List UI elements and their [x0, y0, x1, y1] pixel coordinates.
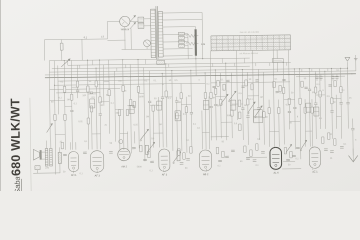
tube V1 AH1 — [68, 151, 78, 171]
resistor RB4 — [216, 147, 218, 154]
wire v127 — [127, 131, 129, 149]
resistor RM3 — [245, 80, 247, 86]
wire screen link — [283, 160, 295, 162]
resistor R18 — [214, 88, 216, 94]
wire bus y72 — [45, 71, 356, 75]
capacitor CM2 — [226, 79, 229, 81]
svg-text:AZ 1: AZ 1 — [312, 170, 318, 173]
capacitor C8 — [241, 107, 244, 109]
resistor R32 — [126, 109, 128, 115]
resistor chain RD3 — [238, 124, 241, 131]
wire fuse link — [107, 39, 125, 41]
wire bus tick — [327, 68, 329, 71]
wire tube6 pin3 — [278, 100, 281, 147]
capacitor CB19 — [296, 146, 300, 148]
switch S8 — [301, 140, 307, 149]
resistor R5 — [76, 81, 78, 87]
speaker magnet — [40, 150, 42, 160]
resistor RB10 — [290, 151, 292, 158]
wire tube4 pin2 — [161, 73, 164, 147]
wire v258 — [257, 69, 260, 139]
wire v64 — [64, 61, 65, 150]
resistor R17 — [185, 107, 187, 113]
resistor R15 — [176, 113, 178, 119]
wire tube1 pin a — [69, 142, 71, 149]
wire link — [269, 131, 279, 133]
capacitor CB5 — [246, 157, 250, 159]
resistor RB7 — [250, 150, 252, 157]
resistor R35 — [204, 92, 206, 98]
capacitor C13 — [340, 102, 343, 104]
wire secondary tap1 — [163, 12, 202, 15]
resistor RM2 — [223, 84, 225, 90]
capacitor C3 — [99, 113, 102, 115]
capacitor CM1 — [212, 85, 215, 87]
wire pickup bottom — [276, 62, 278, 72]
wire bus heater bottom — [33, 172, 60, 174]
tube V7 AZ1 — [309, 147, 320, 169]
capacitor CB4 — [225, 155, 229, 157]
wire v210 — [210, 51, 211, 141]
resistor R14 — [165, 91, 167, 97]
resistor R39 — [304, 107, 306, 113]
resistor R3 — [64, 114, 66, 120]
svg-text:mit Allstrom-Netzteil: mit Allstrom-Netzteil — [239, 52, 258, 55]
resistor R9 — [99, 97, 101, 103]
svg-text:5000: 5000 — [139, 96, 145, 98]
switch S10 — [286, 144, 292, 152]
resistor R30 — [90, 106, 92, 112]
resistor RB12 — [327, 133, 329, 140]
capacitor CB13 — [63, 153, 67, 155]
wire bus y82 mid — [211, 82, 290, 83]
wire link — [290, 120, 301, 122]
capacitor C14 — [351, 128, 354, 130]
wire bus tick — [116, 68, 118, 71]
capacitor C2 — [90, 91, 93, 93]
wire v315 — [314, 71, 317, 139]
coil L1 — [90, 99, 95, 108]
resistor R8 — [95, 81, 97, 87]
resistor R19 — [220, 99, 222, 105]
svg-text:1M: 1M — [212, 97, 215, 99]
wire link — [72, 86, 78, 88]
wire link — [150, 104, 159, 106]
potentiometer P1 — [177, 151, 180, 161]
svg-text:AF 3: AF 3 — [162, 173, 168, 176]
wire link — [305, 130, 312, 132]
svg-text:2M: 2M — [178, 102, 181, 104]
wire bus tick — [92, 60, 94, 65]
svg-text:380/0,06: 380/0,06 — [121, 29, 130, 31]
wire v172 — [172, 71, 173, 151]
switch contacts — [140, 140, 141, 141]
switch S5 — [229, 91, 236, 100]
margin rule — [30, 98, 31, 194]
wire link — [284, 98, 295, 100]
wire v119 — [118, 114, 120, 150]
wire v299 — [300, 69, 301, 159]
tube V3 indicator — [118, 148, 131, 161]
wire bus tick — [168, 64, 170, 67]
field coil box — [35, 166, 40, 170]
capacitor CB16 — [132, 146, 136, 148]
antenna arrow — [345, 57, 350, 61]
resistor RB16 — [61, 142, 63, 149]
wire bus tick — [234, 63, 236, 66]
dial lamp 2 — [144, 40, 151, 47]
resistor R24 — [288, 98, 290, 104]
wire v336 — [335, 95, 337, 129]
wire v253 — [252, 50, 255, 122]
coil L4 — [175, 111, 181, 121]
capacitor C18 — [246, 115, 249, 117]
wire v242 — [241, 70, 244, 140]
resistor RB1 — [178, 149, 180, 156]
resistor R12 — [129, 99, 131, 105]
wire v134 — [134, 131, 136, 143]
resistor R6 — [87, 86, 89, 92]
ground sym top right — [355, 55, 357, 58]
resistor RM1 — [217, 80, 219, 86]
wire selector to primary A — [144, 18, 151, 20]
svg-text:2M: 2M — [67, 99, 70, 101]
wire bus y78 right — [296, 75, 345, 78]
wire bus tick — [125, 65, 127, 68]
coil L8 — [306, 103, 311, 112]
capacitor C17 — [214, 103, 217, 105]
capacitor C1 — [70, 109, 73, 111]
wire v294 — [294, 69, 295, 149]
wire link — [120, 132, 128, 134]
wire rail B — [54, 61, 55, 175]
wire bar bottom — [195, 56, 197, 59]
wire fuse vertical — [61, 40, 63, 44]
wire chain bottom — [211, 136, 229, 138]
svg-text:AH 1: AH 1 — [71, 174, 77, 177]
wire bus y69 — [49, 68, 347, 72]
capacitor CB14 — [83, 151, 87, 153]
wire v109 — [108, 60, 111, 134]
wire link — [92, 133, 101, 135]
wire selector drop — [130, 28, 132, 49]
voltage selector box lower — [138, 23, 144, 28]
switch S2 — [148, 142, 155, 151]
wire v103 — [102, 65, 105, 106]
wire v215 — [214, 70, 217, 140]
resistor R11 — [122, 86, 124, 92]
wire link — [115, 109, 123, 111]
resistor RM6 — [279, 85, 281, 91]
resistor R23 — [282, 87, 284, 93]
rectifier bar — [195, 29, 197, 56]
resistor RM5 — [273, 82, 275, 88]
coil L9 — [314, 107, 319, 116]
voltage table — [211, 35, 291, 51]
capacitor C10 — [293, 106, 296, 108]
wire v247 — [246, 72, 249, 145]
fuse box — [60, 43, 63, 50]
svg-text:AL 4: AL 4 — [273, 172, 279, 175]
resistor R26 — [314, 87, 316, 93]
resistor R28 — [331, 98, 333, 104]
wire link — [88, 93, 96, 95]
capacitor CB7 — [286, 158, 290, 160]
capacitor CB1 — [180, 162, 184, 164]
wire speaker feed 2 — [50, 140, 52, 148]
wire v319 — [319, 69, 322, 129]
wire link — [248, 95, 259, 97]
wire tube5 pin1 — [201, 111, 204, 150]
svg-text:Saba: Saba — [13, 176, 22, 191]
resistor R22 — [263, 112, 265, 118]
wire v176 — [176, 97, 179, 151]
wire terminal rail — [187, 34, 189, 59]
wire v114 — [114, 71, 117, 141]
capacitor CM5 — [276, 91, 279, 93]
wire link — [332, 98, 341, 100]
resistor R31 — [118, 110, 120, 116]
capacitor CM6 — [282, 78, 285, 80]
wire speaker drop — [37, 170, 39, 173]
resistor R7 — [87, 118, 89, 124]
wire bus tick — [311, 69, 313, 72]
wire lamp left lead — [107, 20, 119, 22]
wire tube7 pin1 — [309, 69, 310, 147]
wire v340 — [340, 68, 343, 138]
wire link — [100, 101, 109, 103]
wire AVC segment — [246, 156, 267, 158]
switch S0 — [61, 59, 70, 67]
wire tube4 pin1 — [158, 97, 161, 147]
coil L5 — [203, 100, 209, 109]
capacitor CB11 — [143, 158, 147, 160]
switch arrow sel B — [130, 22, 136, 29]
wire v87 — [88, 60, 89, 149]
resistor RM8 — [334, 81, 336, 87]
capacitor CB8 — [292, 154, 296, 156]
resistor R34 — [152, 105, 154, 111]
wire bus tick — [212, 63, 214, 66]
capacitor CM7 — [304, 86, 307, 88]
wire secondary tap7 — [163, 55, 192, 57]
capacitor C4 — [161, 96, 164, 98]
output transformer winding2 — [49, 148, 52, 166]
capacitor CF4 — [335, 76, 338, 78]
dial lamp — [120, 16, 131, 27]
svg-text:AB 2: AB 2 — [203, 173, 209, 176]
switch contact K1 — [119, 140, 123, 144]
svg-text:Ger.-Nr. ab 145 000: Ger.-Nr. ab 145 000 — [240, 31, 260, 34]
wire v289 — [289, 50, 290, 130]
output transformer winding1 — [45, 149, 48, 167]
wire v99 — [100, 60, 101, 149]
svg-text:5000: 5000 — [137, 166, 143, 168]
wire v123 — [123, 60, 124, 150]
tube V4 AF3 — [159, 149, 170, 171]
junction dots — [64, 60, 65, 61]
wire v347 — [347, 68, 350, 128]
wire ground stem — [352, 149, 354, 162]
wire hv rail — [201, 13, 204, 59]
wire secondary tap6 — [163, 48, 192, 50]
wire v152 — [152, 105, 155, 147]
wire v283 — [283, 62, 284, 144]
switch S7 — [255, 106, 262, 116]
wire v181 — [180, 84, 183, 151]
transformer secondary winding — [158, 12, 163, 58]
speaker cone — [33, 149, 39, 160]
wire lamp to selector — [137, 21, 139, 23]
switch S4 — [221, 94, 228, 103]
resistor R40 — [311, 107, 313, 113]
wire selector to primary B — [144, 25, 151, 27]
svg-text:1M: 1M — [100, 105, 103, 107]
resistor RB2 — [183, 153, 185, 160]
wire bus y82 — [55, 83, 205, 85]
wire bus y78 — [58, 80, 150, 81]
wire v71 — [71, 60, 72, 149]
wire link — [316, 94, 325, 96]
capacitor CB10 — [330, 150, 334, 152]
capacitor CF3 — [331, 76, 334, 78]
wire primary bottom tap — [122, 48, 151, 50]
wire bus y66 — [52, 66, 250, 69]
wire v325 — [324, 71, 327, 129]
capacitor CB15 — [109, 151, 113, 153]
tube V2 AF3 — [90, 151, 104, 173]
resistor RB11 — [322, 137, 324, 144]
coil L3 — [157, 101, 162, 110]
wire speaker link top — [42, 151, 46, 153]
wire link — [181, 104, 191, 106]
wire link — [202, 131, 209, 133]
capacitor C19 — [288, 110, 291, 112]
wire secondary tap2 — [163, 19, 202, 22]
wire v263 — [262, 72, 265, 145]
wire bus tick — [269, 63, 271, 66]
resistor RM7 — [301, 81, 303, 87]
wire link — [166, 96, 172, 98]
pickup box — [272, 58, 283, 62]
resistor chain RD1 — [238, 100, 241, 107]
capacitor CM3 — [241, 85, 244, 87]
resistor R37 — [268, 108, 270, 114]
resistor R10 — [108, 90, 110, 96]
capacitor CB18 — [261, 151, 265, 153]
resistor R36 — [210, 92, 212, 98]
resistor R2 — [63, 86, 65, 92]
capacitor CB2 — [186, 158, 190, 160]
potentiometer P2 — [145, 145, 148, 154]
capacitor CF1 — [315, 76, 318, 78]
wire bus y63 — [68, 62, 291, 65]
resistor R20 — [231, 110, 233, 116]
resistor R21 — [247, 99, 249, 105]
resistor R38 — [278, 107, 280, 113]
wire bus y90 — [56, 91, 100, 94]
svg-text:5000: 5000 — [227, 115, 233, 117]
wire rail A — [49, 61, 50, 141]
wire tube1 pin b — [75, 142, 77, 149]
wire v304 — [304, 99, 307, 146]
wire link — [232, 103, 243, 105]
capacitor C21 — [346, 102, 349, 104]
wire mains top — [44, 38, 107, 41]
wire link — [221, 121, 232, 123]
capacitor C7 — [210, 105, 213, 107]
wire secondary tap3 — [163, 26, 196, 28]
wire v91 — [91, 106, 94, 149]
wire v143 — [144, 68, 145, 162]
wire tube6 pin2 — [273, 50, 274, 147]
wire tube5 pin2 — [205, 73, 206, 149]
wire v352 — [352, 119, 354, 156]
wire mains corner drop — [43, 40, 45, 61]
mains switch — [157, 60, 165, 64]
resistor RB15 — [148, 151, 150, 158]
heater resistor upper — [186, 34, 198, 37]
wire link — [153, 132, 162, 134]
svg-text:680 WLK/WT: 680 WLK/WT — [8, 98, 23, 176]
wire main HT bus — [45, 74, 356, 78]
capacitor C6 — [190, 112, 193, 114]
value labels — [44, 69, 358, 175]
coil L7 — [230, 100, 236, 110]
tube V5 AB2 — [199, 150, 211, 171]
wire tube7 pin2 — [311, 99, 314, 146]
resistor R29 — [340, 87, 342, 93]
resistor RM4 — [251, 84, 253, 90]
capacitor C11 — [308, 88, 311, 90]
resistor R33 — [133, 101, 135, 107]
hum resistor — [58, 152, 61, 163]
resistor R16 — [180, 93, 182, 99]
resistor RB13 — [334, 139, 336, 146]
wire v186 — [185, 97, 188, 153]
wire stubs under tubes — [72, 171, 74, 173]
resistor R27 — [319, 91, 321, 97]
ground arrow — [348, 155, 357, 161]
wire link — [104, 81, 109, 83]
wire v231 — [230, 73, 233, 139]
capacitor CB12 — [150, 160, 154, 162]
resistor RB9 — [284, 147, 286, 154]
wire tube6 pin1 — [268, 100, 271, 147]
capacitor C15 — [76, 89, 79, 91]
wire bus tick — [286, 62, 288, 65]
voltage selector box upper — [138, 17, 144, 22]
wire secondary tap4 — [163, 33, 186, 35]
wire bus tick — [221, 58, 223, 63]
wire link — [55, 133, 65, 135]
resistor RB5 — [222, 151, 224, 158]
wire tube4 pin3 — [166, 64, 167, 147]
wire bus tick — [67, 60, 69, 65]
wire v58 — [57, 65, 60, 114]
wire lamp riser — [106, 22, 108, 39]
wire output top link — [282, 168, 301, 170]
resistor RB6 — [244, 146, 246, 153]
capacitor C5 — [175, 100, 178, 102]
resistor RB8 — [256, 144, 258, 151]
wire link — [127, 104, 134, 106]
transformer core — [155, 6, 158, 59]
resistor RB3 — [190, 147, 192, 154]
wire bus tick — [244, 58, 246, 63]
wire lamp right lead — [130, 20, 138, 22]
capacitor C12 — [330, 110, 333, 112]
